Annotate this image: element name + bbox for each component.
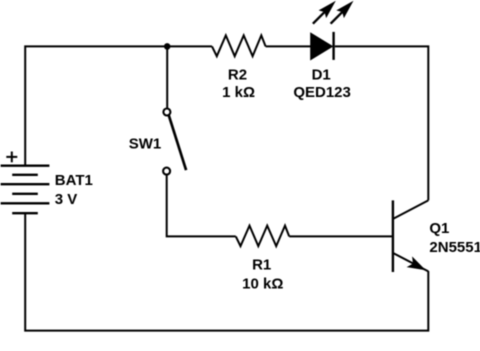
plus sign xyxy=(6,152,17,163)
wire switch to R1 xyxy=(167,175,236,237)
svg-text:3 V: 3 V xyxy=(55,191,78,208)
transistor Q1 xyxy=(393,200,428,272)
svg-text:1 kΩ: 1 kΩ xyxy=(222,84,255,101)
resistor R2 xyxy=(212,35,266,56)
wire top-left: left rail down to battery + top wire to R2 xyxy=(25,46,212,166)
node junction dot xyxy=(164,43,171,50)
svg-text:R1: R1 xyxy=(252,257,271,274)
wire D1 to top-right corner down to collector xyxy=(335,46,429,200)
battery BAT1 xyxy=(1,166,50,214)
svg-text:R2: R2 xyxy=(228,67,247,84)
svg-text:2N5551: 2N5551 xyxy=(429,239,480,256)
svg-text:QED123: QED123 xyxy=(293,84,351,101)
svg-text:Q1: Q1 xyxy=(429,220,449,237)
wire emitter to bottom rail and left rail up to battery xyxy=(25,214,428,331)
LED D1 xyxy=(310,1,353,61)
svg-text:SW1: SW1 xyxy=(129,135,162,152)
svg-text:10 kΩ: 10 kΩ xyxy=(242,275,283,292)
wire R1 to base xyxy=(289,235,392,237)
switch SW1 xyxy=(163,109,186,175)
wire R2 to D1 xyxy=(266,45,311,47)
resistor R1 xyxy=(236,226,289,247)
wire junction to switch xyxy=(166,46,168,108)
svg-text:BAT1: BAT1 xyxy=(55,172,93,189)
svg-text:D1: D1 xyxy=(312,67,331,84)
